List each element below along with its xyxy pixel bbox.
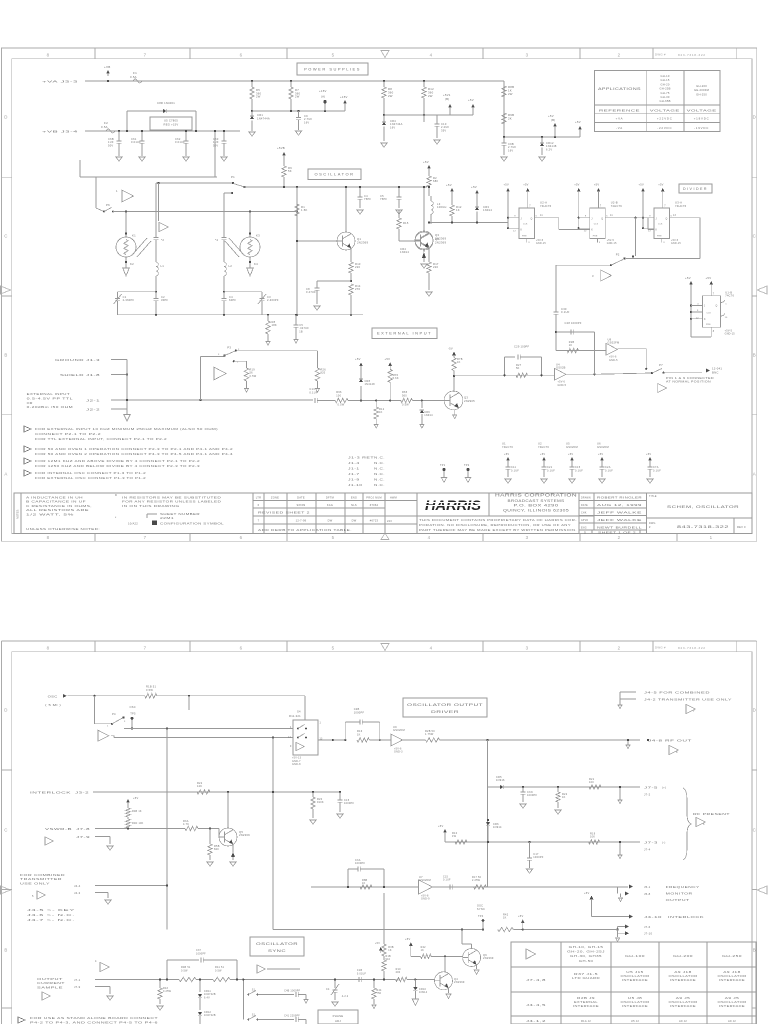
svg-text:NEWT BURDELL: NEWT BURDELL xyxy=(597,526,642,530)
svg-text:VOLTAGE: VOLTAGE xyxy=(687,108,717,112)
svg-text:220: 220 xyxy=(433,265,438,269)
svg-text:+5V: +5V xyxy=(468,98,474,102)
svg-text:+5V-5: +5V-5 xyxy=(536,240,544,242)
svg-text:0.47UF: 0.47UF xyxy=(306,290,316,294)
svg-text:10: 10 xyxy=(725,317,728,319)
svg-text:0.1UF: 0.1UF xyxy=(547,469,555,472)
svg-text:ENG: ENG xyxy=(351,496,357,500)
svg-text:OSC: OSC xyxy=(48,694,58,698)
svg-text:LTR: LTR xyxy=(256,496,261,500)
svg-text:1: 1 xyxy=(320,723,322,725)
svg-text:1K: 1K xyxy=(357,733,361,736)
svg-text:5: 5 xyxy=(332,645,335,650)
svg-text:0.5W: 0.5W xyxy=(146,688,153,692)
svg-text:5: 5 xyxy=(606,216,608,218)
svg-text:DW: DW xyxy=(352,519,357,523)
svg-text:7: 7 xyxy=(529,206,531,208)
svg-text:74HC76: 74HC76 xyxy=(540,204,552,208)
svg-text:6: 6 xyxy=(240,535,243,540)
svg-text:DFTM: DFTM xyxy=(326,496,334,500)
svg-text:3: 3 xyxy=(526,535,529,540)
svg-text:S4: S4 xyxy=(297,710,301,714)
svg-text:OUTPUT: OUTPUT xyxy=(666,898,690,902)
svg-text:+5V: +5V xyxy=(504,453,509,456)
svg-text:+5V: +5V xyxy=(584,891,589,895)
svg-text:74C76: 74C76 xyxy=(725,294,734,298)
svg-text:J: J xyxy=(521,218,522,220)
svg-text:2N2369: 2N2369 xyxy=(483,956,494,960)
svg-text:J1-7: J1-7 xyxy=(348,472,360,476)
svg-text:+5VB: +5VB xyxy=(277,146,285,150)
svg-text:R15: R15 xyxy=(403,221,409,225)
svg-text:+5V: +5V xyxy=(471,185,477,189)
svg-text:B: B xyxy=(4,948,7,953)
svg-text:+5V: +5V xyxy=(639,183,644,187)
svg-text:1K: 1K xyxy=(562,796,566,799)
svg-text:220: 220 xyxy=(355,265,360,269)
svg-text:2W: 2W xyxy=(508,92,513,96)
svg-text:1000PF: 1000PF xyxy=(527,794,537,797)
svg-text:C8R 1N4001: C8R 1N4001 xyxy=(157,101,175,105)
svg-text:( 5 MI ): ( 5 MI ) xyxy=(45,703,61,707)
svg-text:AUG 12, 1999: AUG 12, 1999 xyxy=(597,503,642,507)
svg-text:U5 J8: U5 J8 xyxy=(628,996,643,1000)
svg-text:+5V: +5V xyxy=(375,942,380,945)
svg-text:35V: 35V xyxy=(441,128,446,132)
svg-text:EXTERNAL: EXTERNAL xyxy=(574,1000,598,1004)
svg-text:9: 9 xyxy=(585,216,587,218)
svg-text:NOTES:: NOTES: xyxy=(16,509,20,519)
svg-text:0.1UF: 0.1UF xyxy=(605,469,613,472)
svg-text:+5V: +5V xyxy=(504,183,509,187)
svg-text:EXTERNAL INPUT: EXTERNAL INPUT xyxy=(27,392,71,396)
svg-text:8: 8 xyxy=(47,535,50,540)
svg-text:J1-3 RET: J1-3 RET xyxy=(348,456,374,460)
svg-text:843-7318-322: 843-7318-322 xyxy=(678,53,706,57)
svg-text:2N2369: 2N2369 xyxy=(435,236,446,240)
svg-text:J4-5 FOR COMBINED: J4-5 FOR COMBINED xyxy=(644,691,710,695)
svg-text:820: 820 xyxy=(321,372,326,375)
svg-text:ZONE: ZONE xyxy=(271,496,279,500)
svg-text:0.5A: 0.5A xyxy=(101,125,108,129)
svg-text:ENG: ENG xyxy=(581,528,587,530)
svg-text:A: A xyxy=(4,472,7,477)
svg-text:7: 7 xyxy=(600,206,602,208)
svg-text:1.75W: 1.75W xyxy=(425,733,434,736)
svg-text:1K: 1K xyxy=(421,949,425,952)
svg-text:K: K xyxy=(521,230,523,232)
svg-text:S1: S1 xyxy=(252,1014,256,1017)
svg-text:0.25W: 0.25W xyxy=(163,990,172,993)
svg-text:PRE: PRE xyxy=(522,236,527,238)
svg-text:J4-6 >- N.C.: J4-6 >- N.C. xyxy=(27,913,75,917)
svg-text:P4: P4 xyxy=(112,712,116,716)
svg-text:FOR COMBINED: FOR COMBINED xyxy=(20,873,65,877)
svg-text:APPLICATIONS: APPLICATIONS xyxy=(598,87,642,91)
svg-text:C2B: C2B xyxy=(354,707,360,711)
svg-text:74HC76: 74HC76 xyxy=(538,445,549,449)
svg-text:OSCILLATOR: OSCILLATOR xyxy=(621,974,650,978)
svg-text:B: B xyxy=(753,353,756,358)
svg-text:+5V-5: +5V-5 xyxy=(607,240,615,242)
svg-text:FOR EXTERNAL OSC CONNECT P1-3: FOR EXTERNAL OSC CONNECT P1-3 TO P1-2 xyxy=(35,476,146,480)
svg-text:74HC76: 74HC76 xyxy=(675,204,687,208)
svg-text:560: 560 xyxy=(402,394,407,397)
svg-text:U2: U2 xyxy=(538,442,542,446)
svg-text:680: 680 xyxy=(433,179,438,183)
svg-text:C: C xyxy=(753,828,756,833)
svg-text:2N2369: 2N2369 xyxy=(239,833,250,837)
svg-text:74HC76: 74HC76 xyxy=(611,204,623,208)
svg-text:8: 8 xyxy=(713,331,715,333)
svg-text:+5V: +5V xyxy=(523,183,528,187)
svg-text:LTD GUARD: LTD GUARD xyxy=(572,976,600,980)
svg-text:13: 13 xyxy=(673,215,677,217)
svg-text:+15V: +15V xyxy=(340,95,348,99)
svg-text:1N916: 1N916 xyxy=(496,779,505,782)
svg-text:2: 2 xyxy=(618,535,621,540)
svg-text:CURRENT: CURRENT xyxy=(37,981,65,985)
svg-text:REFERENCE: REFERENCE xyxy=(599,108,640,112)
svg-text:GH-30: GH-30 xyxy=(661,95,670,99)
svg-text:OR: OR xyxy=(27,401,33,405)
svg-text:1K: 1K xyxy=(388,949,392,952)
svg-text:K: K xyxy=(656,230,658,232)
svg-text:INTERFACE: INTERFACE xyxy=(670,978,696,982)
svg-text:0.1UF: 0.1UF xyxy=(309,390,317,394)
svg-text:2N2369: 2N2369 xyxy=(357,240,368,244)
svg-text:OSC: OSC xyxy=(130,705,136,709)
svg-text:A INDUCTANCE IN UH: A INDUCTANCE IN UH xyxy=(26,496,83,500)
svg-text:MONITOR: MONITOR xyxy=(666,891,693,895)
svg-text:FOR 12M1 KHZ AND ABOVE DIVIDE: FOR 12M1 KHZ AND ABOVE DIVIDE BY 4 CONNE… xyxy=(35,459,200,463)
svg-text:7: 7 xyxy=(144,52,147,57)
svg-text:J4-10: J4-10 xyxy=(644,915,662,919)
svg-text:9/8/99: 9/8/99 xyxy=(297,503,306,507)
svg-text:#6723: #6723 xyxy=(370,519,379,523)
svg-text:QUINCY, ILLINOIS 62305: QUINCY, ILLINOIS 62305 xyxy=(503,508,569,512)
svg-text:+5V: +5V xyxy=(446,183,452,187)
svg-text:270: 270 xyxy=(355,287,360,291)
svg-text:R1B 51: R1B 51 xyxy=(146,685,156,689)
svg-text:12: 12 xyxy=(584,231,587,233)
svg-text:GH-250: GH-250 xyxy=(696,92,707,96)
svg-text:843-7318-322: 843-7318-322 xyxy=(677,525,729,529)
svg-text:+22VDC: +22VDC xyxy=(657,117,673,121)
svg-text:OSCILLATOR: OSCILLATOR xyxy=(621,1000,650,1004)
svg-text:CLK: CLK xyxy=(658,224,663,226)
svg-text:Q: Q xyxy=(601,218,603,220)
svg-text:18K: 18K xyxy=(272,323,277,327)
svg-text:FOR USE AS STAND ALONE BOARD C: FOR USE AS STAND ALONE BOARD CONNECT xyxy=(30,1016,158,1020)
svg-text:SHIELD: SHIELD xyxy=(60,373,84,377)
svg-text:3: 3 xyxy=(663,242,665,244)
svg-text:J4-2 TRANSMITTER USE ONLY: J4-2 TRANSMITTER USE ONLY xyxy=(644,698,732,702)
svg-text:P1: P1 xyxy=(231,175,235,179)
svg-text:USE ONLY: USE ONLY xyxy=(20,881,50,885)
svg-text:DWG #: DWG # xyxy=(655,646,666,650)
svg-text:+18VDC: +18VDC xyxy=(694,117,710,121)
svg-text:7: 7 xyxy=(258,519,260,523)
svg-text:11: 11 xyxy=(540,215,543,217)
svg-text:0.1UF: 0.1UF xyxy=(511,469,519,472)
svg-text:N.C.: N.C. xyxy=(374,483,385,487)
svg-text:3: 3 xyxy=(526,52,529,57)
svg-text:2N2905: 2N2905 xyxy=(464,399,475,403)
svg-text:(B): (B) xyxy=(445,97,449,101)
svg-text:5K: 5K xyxy=(288,169,292,173)
svg-text:GND-3: GND-3 xyxy=(394,751,403,754)
svg-text:DWG: DWG xyxy=(649,522,656,525)
svg-text:6: 6 xyxy=(258,503,260,507)
svg-text:GH-15: GH-15 xyxy=(661,78,670,82)
svg-text:0.1UF: 0.1UF xyxy=(443,879,451,882)
svg-text:GND-15: GND-15 xyxy=(725,333,736,336)
svg-text:6.4V: 6.4V xyxy=(204,996,210,999)
svg-text:1/2 WATT, 5%: 1/2 WATT, 5% xyxy=(26,512,75,516)
svg-text:U1: U1 xyxy=(502,442,506,446)
svg-text:P3: P3 xyxy=(227,346,231,350)
svg-text:L2: L2 xyxy=(229,264,233,268)
svg-text:1000PF: 1000PF xyxy=(533,856,543,859)
svg-text:1.5K: 1.5K xyxy=(301,208,308,212)
svg-text:J: J xyxy=(656,218,657,220)
svg-text:14: 14 xyxy=(288,737,292,739)
svg-text:+VB: +VB xyxy=(104,65,111,69)
svg-text:N.C.: N.C. xyxy=(374,478,385,482)
svg-text:J7-6: J7-6 xyxy=(644,925,651,929)
svg-text:GH-25B: GH-25B xyxy=(659,87,670,91)
svg-text:J4-7 >- N.C.: J4-7 >- N.C. xyxy=(27,918,75,922)
svg-text:5K: 5K xyxy=(516,367,520,370)
svg-text:J4-3: J4-3 xyxy=(74,891,81,895)
svg-text:1K: 1K xyxy=(362,882,366,885)
svg-text:GND-5: GND-5 xyxy=(558,384,567,387)
svg-text:C4B 1000PF: C4B 1000PF xyxy=(284,990,300,993)
svg-text:GS02B: GS02B xyxy=(556,366,566,370)
svg-text:0.5W: 0.5W xyxy=(402,404,409,407)
svg-text:1N914: 1N914 xyxy=(400,250,409,254)
svg-text:+5V: +5V xyxy=(438,824,443,828)
svg-text:A9 J5: A9 J5 xyxy=(676,996,691,1000)
svg-text:3: 3 xyxy=(526,645,529,650)
svg-text:TRANSMITTER: TRANSMITTER xyxy=(20,877,62,881)
svg-text:0-20dBm /50 OHM: 0-20dBm /50 OHM xyxy=(27,405,74,409)
svg-text:12K: 12K xyxy=(197,785,202,788)
svg-text:1N914: 1N914 xyxy=(493,826,502,829)
svg-text:K: K xyxy=(704,319,706,321)
svg-text:IN ON THIS DRAWING: IN ON THIS DRAWING xyxy=(122,504,180,508)
svg-text:TP5: TP5 xyxy=(130,712,136,716)
svg-text:HWM: HWM xyxy=(390,497,397,500)
svg-text:D: D xyxy=(4,115,7,120)
svg-text:P2: P2 xyxy=(616,253,620,257)
svg-text:(-): (-) xyxy=(662,841,666,845)
svg-text:+5V: +5V xyxy=(518,914,523,918)
svg-text:PRE: PRE xyxy=(593,236,598,238)
svg-text:+5V-5: +5V-5 xyxy=(671,240,679,242)
svg-text:J7-4,8: J7-4,8 xyxy=(526,978,547,982)
svg-text:C: C xyxy=(4,828,7,833)
svg-text:DW: DW xyxy=(328,519,333,523)
svg-text:12: 12 xyxy=(648,231,651,233)
svg-text:50V: 50V xyxy=(213,143,218,147)
svg-text:OSC: OSC xyxy=(477,904,483,908)
svg-text:+15V: +15V xyxy=(319,89,327,93)
svg-text:GH-10, GH-15: GH-10, GH-15 xyxy=(569,945,604,949)
svg-text:C: C xyxy=(4,234,7,239)
svg-text:1000PF: 1000PF xyxy=(344,802,354,805)
svg-text:INTERFACE: INTERFACE xyxy=(622,1004,648,1008)
svg-text:ADJ: ADJ xyxy=(335,1019,341,1023)
svg-text:PORATION. NO DISCLOSURE, REPRO: PORATION. NO DISCLOSURE, REPRODUCTION, O… xyxy=(419,523,571,527)
svg-text:+VA: +VA xyxy=(616,117,624,121)
svg-text:J: J xyxy=(704,306,705,308)
svg-text:7: 7 xyxy=(664,206,666,208)
svg-text:GH-20, GH-25J: GH-20, GH-25J xyxy=(567,950,605,954)
svg-text:1N4148: 1N4148 xyxy=(365,383,376,386)
svg-text:R4N 10K: R4N 10K xyxy=(132,822,144,825)
svg-text:GS02FM: GS02FM xyxy=(597,445,609,449)
svg-text:100UH: 100UH xyxy=(437,205,447,209)
svg-text:16V: 16V xyxy=(390,125,395,129)
svg-text:11: 11 xyxy=(610,215,613,217)
svg-text:ADD DERB TO APPLICATION TABLE.: ADD DERB TO APPLICATION TABLE. xyxy=(258,528,352,532)
svg-text:2-360PF: 2-360PF xyxy=(123,298,135,302)
svg-text:CLK: CLK xyxy=(594,224,599,226)
svg-text:OSCILLATOR: OSCILLATOR xyxy=(669,1000,698,1004)
svg-text:J1-8: J1-8 xyxy=(86,373,100,377)
svg-text:Q3: Q3 xyxy=(464,396,468,400)
svg-text:D: D xyxy=(753,708,756,713)
svg-text:P.O. BOX 4290: P.O. BOX 4290 xyxy=(514,504,559,508)
svg-text:820: 820 xyxy=(214,848,219,851)
svg-text:DATE: DATE xyxy=(297,496,305,500)
svg-text:J7-8: J7-8 xyxy=(76,827,90,831)
svg-text:50V: 50V xyxy=(108,143,113,147)
svg-text:R4B 1K: R4B 1K xyxy=(132,810,142,813)
svg-text:1N914: 1N914 xyxy=(419,991,428,994)
svg-text:FOR 50 AND OVEN 1 OPERATION CO: FOR 50 AND OVEN 1 OPERATION CONNECT P2-3… xyxy=(35,447,233,451)
svg-text:C13: C13 xyxy=(309,387,315,391)
svg-text:CONFIGURATION SYMBOL: CONFIGURATION SYMBOL xyxy=(160,522,224,526)
svg-text:GS02FM: GS02FM xyxy=(608,341,620,345)
svg-text:6: 6 xyxy=(703,823,705,826)
svg-text:8: 8 xyxy=(47,645,50,650)
svg-text:IN RESISTORS MAY BE SUBSTITUTE: IN RESISTORS MAY BE SUBSTITUTED xyxy=(122,496,221,500)
svg-text:U6: U6 xyxy=(597,442,601,446)
svg-text:REV 0: REV 0 xyxy=(737,525,746,529)
svg-text:TP4: TP4 xyxy=(478,915,484,918)
svg-text:4.7K: 4.7K xyxy=(183,823,189,826)
svg-text:8: 8 xyxy=(47,52,50,57)
svg-text:NLS: NLS xyxy=(351,503,357,507)
svg-text:INTERFACE: INTERFACE xyxy=(573,1004,599,1008)
svg-text:J1-3: J1-3 xyxy=(86,358,100,362)
svg-text:1K: 1K xyxy=(503,917,507,920)
svg-text:2W: 2W xyxy=(295,95,300,99)
svg-text:AT NORMAL POSITION: AT NORMAL POSITION xyxy=(666,380,711,383)
svg-text:GND-5: GND-5 xyxy=(609,359,618,362)
svg-text:5: 5 xyxy=(332,535,335,540)
svg-text:J7-3: J7-3 xyxy=(644,841,658,845)
svg-text:OSCILLATOR: OSCILLATOR xyxy=(315,172,355,177)
svg-text:22M1: 22M1 xyxy=(160,516,174,520)
svg-text:Q: Q xyxy=(531,218,533,220)
svg-text:843-7318-322: 843-7318-322 xyxy=(678,646,706,650)
svg-text:GH-200: GH-200 xyxy=(673,954,694,958)
svg-text:CONNECT P2-1 TO P2-2: CONNECT P2-1 TO P2-2 xyxy=(35,432,101,436)
svg-text:GE-200FM: GE-200FM xyxy=(694,88,710,92)
svg-text:U2-B: U2-B xyxy=(611,201,618,205)
svg-text:J2-1: J2-1 xyxy=(86,399,100,403)
svg-text:J1-9: J1-9 xyxy=(348,478,360,482)
svg-text:APVD: APVD xyxy=(581,519,588,522)
svg-text:U3-A: U3-A xyxy=(675,201,682,205)
svg-text:74HC76: 74HC76 xyxy=(502,445,513,449)
svg-text:N.C.: N.C. xyxy=(374,456,385,460)
svg-text:TP2: TP2 xyxy=(464,464,470,467)
svg-text:INTERFACE: INTERFACE xyxy=(719,978,745,982)
svg-text:ALL RESISTORS ARE: ALL RESISTORS ARE xyxy=(26,508,89,512)
svg-text:BNC: BNC xyxy=(712,370,719,374)
svg-text:GS02FM: GS02FM xyxy=(566,445,578,449)
svg-text:1N4742B: 1N4742B xyxy=(204,1014,216,1017)
svg-text:J7-5: J7-5 xyxy=(644,786,658,790)
svg-text:3: 3 xyxy=(592,274,594,278)
svg-text:+5V: +5V xyxy=(575,120,581,124)
svg-text:1N4744A: 1N4744A xyxy=(257,116,270,120)
svg-text:75PF: 75PF xyxy=(364,197,371,201)
svg-text:U5 J2: U5 J2 xyxy=(631,1019,639,1023)
svg-text:8: 8 xyxy=(676,751,678,754)
svg-text:7: 7 xyxy=(693,710,695,713)
svg-text:2: 2 xyxy=(618,645,621,650)
svg-text:C4: C4 xyxy=(326,988,330,991)
svg-text:12: 12 xyxy=(696,317,699,319)
svg-text:SHEET 1 OF 2: SHEET 1 OF 2 xyxy=(598,530,637,534)
svg-text:+5V: +5V xyxy=(574,183,579,187)
svg-text:U5 C7805: U5 C7805 xyxy=(164,119,178,123)
svg-text:30PF: 30PF xyxy=(161,298,168,302)
svg-text:B: B xyxy=(753,948,756,953)
svg-text:GS02FM: GS02FM xyxy=(419,878,431,882)
svg-text:HARRIS CORPORATION: HARRIS CORPORATION xyxy=(495,493,577,498)
svg-text:9: 9 xyxy=(649,216,651,218)
svg-text:GND-15: GND-15 xyxy=(607,243,617,245)
svg-text:2N2369: 2N2369 xyxy=(454,980,465,984)
svg-text:A9 J2: A9 J2 xyxy=(728,1019,736,1023)
svg-text:4-2.2: 4-2.2 xyxy=(342,995,349,998)
svg-text:DIVIDER: DIVIDER xyxy=(683,187,708,191)
svg-text:S1: S1 xyxy=(252,989,256,992)
svg-text:3: 3 xyxy=(218,354,220,356)
svg-text:U5 J15: U5 J15 xyxy=(626,970,644,974)
svg-text:J4-1,2: J4-1,2 xyxy=(526,1019,547,1023)
svg-text:0.1UF: 0.1UF xyxy=(653,469,661,472)
svg-text:100: 100 xyxy=(589,781,594,784)
svg-text:#7064: #7064 xyxy=(370,503,379,507)
svg-text:5: 5 xyxy=(332,52,335,57)
svg-text:60PF: 60PF xyxy=(229,298,236,302)
svg-text:1B: 1B xyxy=(299,330,303,333)
svg-text:PRE: PRE xyxy=(657,236,662,238)
svg-text:RF PRESENT: RF PRESENT xyxy=(693,812,730,816)
svg-text:A9 J5: A9 J5 xyxy=(725,996,740,1000)
svg-text:5: 5 xyxy=(32,895,34,898)
svg-text:3: 3 xyxy=(599,242,601,244)
svg-text:GND-8: GND-8 xyxy=(292,763,301,766)
